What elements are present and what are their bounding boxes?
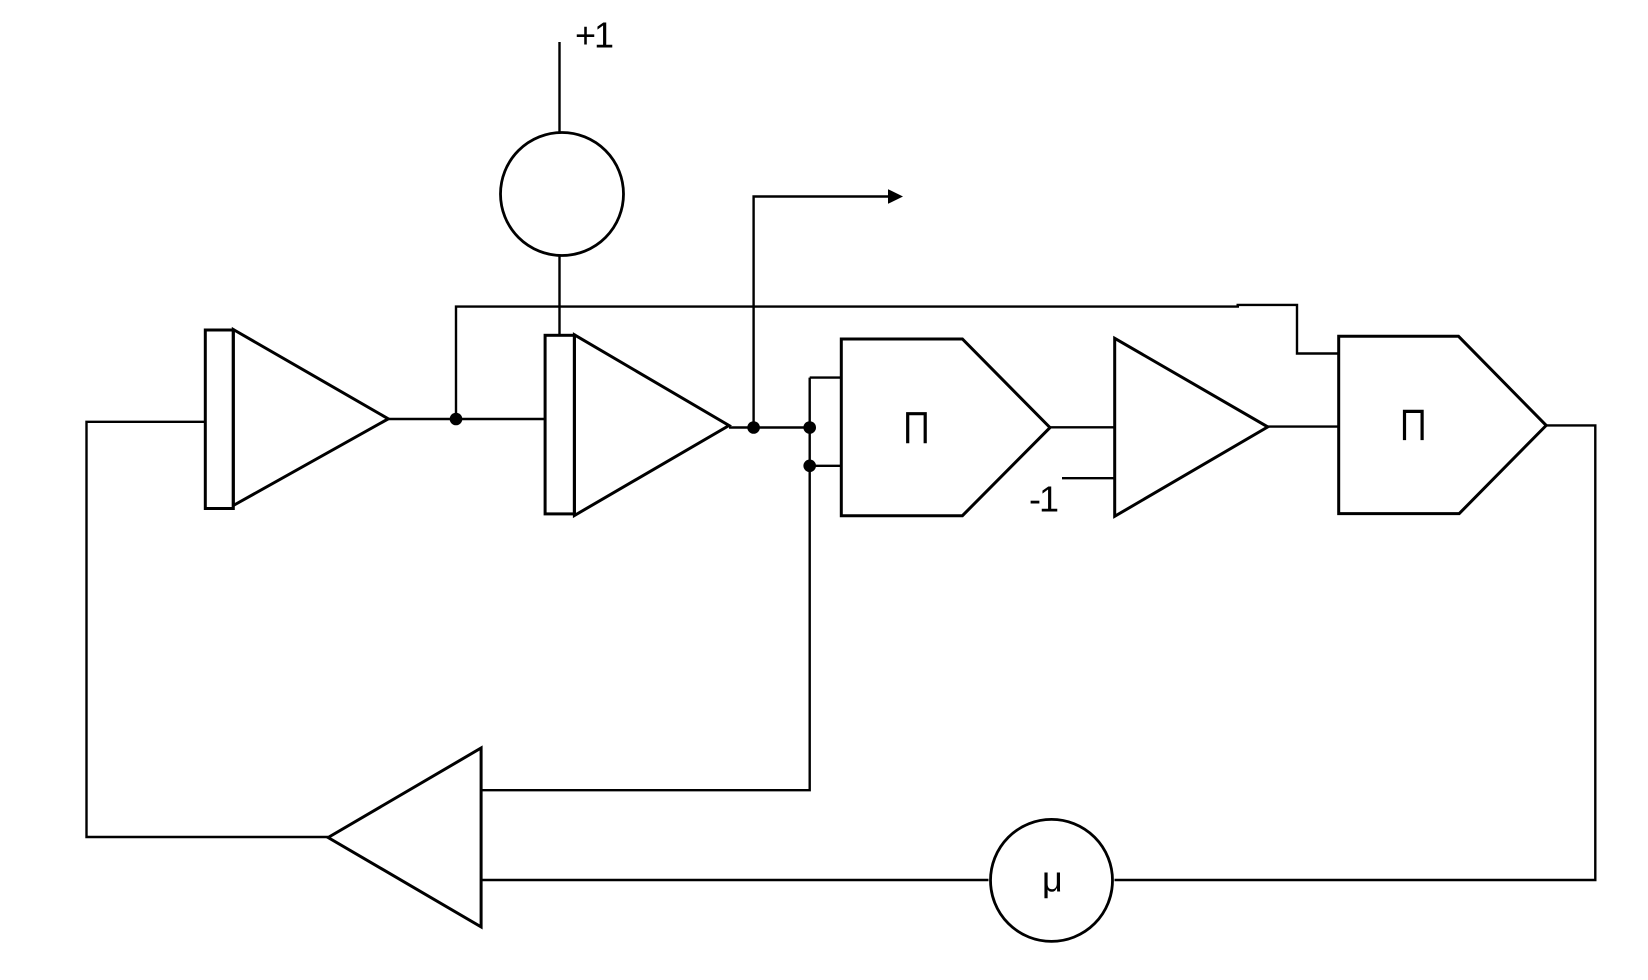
node B junction dot (output tap)	[747, 421, 760, 434]
integrator U1 body	[233, 330, 388, 506]
wire U1 output to U2 input	[388, 418, 546, 420]
wire vertical branch node C to inverter feedback	[481, 378, 810, 791]
node C junction dot	[803, 421, 816, 434]
wire P1 output to amplifier U3	[1050, 426, 1116, 428]
wire feedback rail from node A to top right	[456, 307, 1239, 419]
integrator U2 body	[574, 335, 729, 516]
wire U2 output bus	[729, 426, 810, 428]
wire U3 output to multiplier P2	[1268, 425, 1340, 427]
inverter U4 body	[328, 748, 481, 927]
node A junction dot	[450, 413, 463, 426]
wire mu output to inverter U4	[481, 879, 989, 881]
wire -1 input stub to U3	[1062, 477, 1116, 479]
wire multiplier P1 upper input stub	[810, 376, 842, 378]
svg-text:+1: +1	[575, 15, 613, 56]
multiplier P2 body	[1339, 336, 1547, 513]
wire +1 lead into source circle	[558, 42, 560, 132]
amplifier U3 body	[1115, 338, 1268, 516]
wire jog into multiplier P2 upper input	[1237, 305, 1341, 354]
coefficient pot circle mu	[991, 819, 1113, 941]
wire P2 output down and around to coefficient pot	[1115, 425, 1596, 880]
svg-text:-1: -1	[1029, 479, 1058, 520]
arrowhead of output tap	[888, 189, 903, 204]
integrator U2 input rail	[545, 335, 574, 514]
svg-text:μ: μ	[1042, 859, 1063, 900]
wire U4 output feedback to integrator U1 input	[87, 422, 329, 837]
node D junction dot	[803, 460, 816, 473]
wire multiplier P1 lower input stub	[810, 465, 842, 467]
P2 product symbol	[1403, 410, 1424, 440]
integrator U1 input rail	[205, 330, 233, 509]
P1 product symbol	[906, 412, 927, 443]
wire output tap up and right	[754, 197, 889, 428]
wire source circle down into integrator U2 top	[558, 255, 560, 337]
source circle (constant +1 input)	[501, 133, 624, 256]
multiplier P1 body	[841, 339, 1050, 516]
